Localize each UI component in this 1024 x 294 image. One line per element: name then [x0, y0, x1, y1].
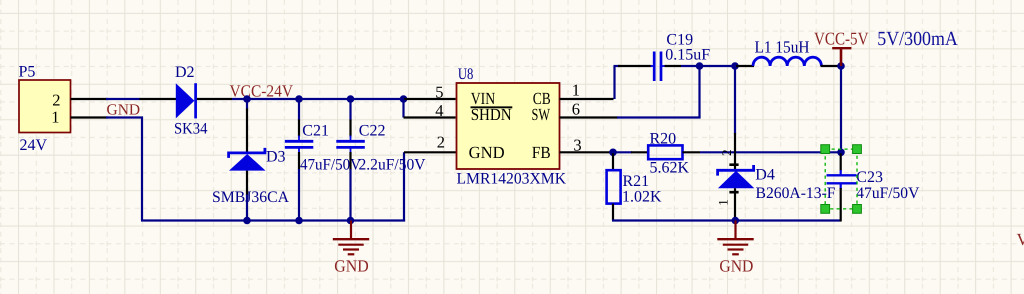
diode D2 value SK34	[174, 120, 208, 137]
selection handle C23 bottom-left	[821, 205, 830, 214]
svg-text:47uF/50V: 47uF/50V	[300, 156, 361, 173]
svg-text:R20: R20	[650, 130, 677, 147]
svg-text:0.15uF: 0.15uF	[665, 46, 710, 63]
diode D3 designator	[266, 149, 286, 166]
diode D4 value B260A-13-F	[756, 185, 836, 202]
wire U8 FB pin stub	[560, 151, 614, 153]
ground label right	[719, 257, 753, 276]
wire P5.2 to D2 anode	[106, 98, 140, 100]
capacitor C21 designator	[302, 123, 329, 140]
op-amp U8 pin name FB	[532, 143, 551, 162]
selection handle C23 bottom-right	[853, 205, 862, 214]
op-amp U8 pin number 2	[437, 133, 445, 152]
wire VIN to SHDN link vertical	[402, 99, 404, 118]
capacitor C23 value	[856, 185, 919, 202]
junction D4 riser at top row	[731, 62, 739, 70]
svg-text:SMBJ36CA: SMBJ36CA	[212, 189, 289, 206]
capacitor C22 designator	[359, 123, 386, 140]
op-amp U8 pin number 5	[435, 82, 443, 101]
wire C21 to ground rail	[298, 169, 300, 221]
wire U8 GND pin stub	[404, 151, 457, 153]
resistor R20 right pin	[683, 151, 701, 153]
annotation 5V/300mA	[877, 28, 958, 50]
diode D3 anode pin	[246, 171, 248, 196]
svg-text:VCC-24V: VCC-24V	[230, 81, 294, 100]
diode D3 cathode pin	[246, 100, 248, 153]
op-amp U8 pin name VIN	[471, 89, 496, 108]
junction D4 GND at ground rail	[732, 217, 740, 225]
capacitor C21 top pin	[298, 100, 300, 141]
svg-text:C23: C23	[856, 169, 883, 186]
op-amp U8 pin number 1	[572, 80, 580, 99]
junction C23 top node	[837, 149, 845, 157]
svg-text:1: 1	[51, 108, 59, 127]
junction C22 GND at ground rail	[347, 217, 355, 225]
wire C19 to SW node	[681, 65, 736, 67]
diode D3 body	[229, 148, 266, 171]
wire D3 anode to ground rail	[246, 195, 248, 221]
resistor R21 value	[622, 188, 662, 205]
connector P5 value 24V	[20, 137, 48, 154]
wire top row to L1	[736, 65, 754, 67]
wire ground rail up to U8 GND pin	[403, 152, 405, 221]
resistor R20 designator	[650, 130, 677, 147]
wire SHDN pin stub	[404, 116, 456, 118]
diode D2 anode pin	[140, 98, 177, 100]
op-amp U8 designator	[458, 66, 474, 83]
capacitor C23 designator	[856, 169, 883, 186]
svg-text:SW: SW	[532, 105, 551, 124]
net label GND	[107, 102, 141, 119]
diode D4 cathode tick	[729, 163, 738, 166]
inductor L1 label	[755, 38, 810, 57]
capacitor C19 designator	[666, 32, 693, 49]
junction FB node	[609, 149, 617, 157]
junction at D3 on VCC-24V rail	[243, 95, 251, 103]
diode D4 body	[718, 165, 755, 188]
connector P5 designator label	[19, 64, 36, 81]
svg-text:GND: GND	[719, 257, 753, 276]
capacitor C22 bottom pin	[350, 147, 352, 170]
diode D4 pin 2 number rotated	[719, 149, 734, 156]
ground symbol right	[717, 221, 753, 255]
op-amp U8 body	[457, 83, 560, 169]
diode D4 pin 1 number rotated	[715, 199, 730, 206]
svg-text:24V: 24V	[20, 137, 48, 154]
capacitor C23 top pin	[840, 153, 842, 175]
junction at VIN branch	[400, 95, 408, 103]
svg-text:B260A-13-F: B260A-13-F	[756, 185, 836, 202]
wire U8 CB pin stub	[560, 98, 614, 100]
capacitor C19 plates	[654, 52, 661, 82]
diode D4 anode pin	[734, 188, 736, 220]
svg-text:SK34: SK34	[174, 120, 208, 137]
inductor L1 right pin	[821, 65, 842, 67]
svg-text:GND: GND	[334, 256, 368, 275]
op-amp U8 value LMR14203XMK	[457, 171, 567, 188]
capacitor C23 bottom pin	[840, 183, 842, 221]
wire C22 to ground rail	[349, 169, 351, 221]
resistor R20 body	[648, 145, 682, 159]
wire P5.1 to corner	[106, 116, 143, 118]
wire D4 riser from top row	[734, 66, 736, 134]
ground symbol left	[333, 221, 369, 255]
op-amp U8 pin number 6	[572, 99, 580, 118]
junction VCC-5V node	[837, 62, 845, 70]
svg-text:2: 2	[719, 149, 734, 156]
selection handle C23 top-right	[853, 145, 862, 154]
svg-text:C22: C22	[359, 123, 386, 140]
capacitor C23 plates	[827, 175, 857, 183]
capacitor C22 plates	[336, 141, 365, 147]
diode D4 anode tick	[729, 191, 738, 194]
resistor R21 bottom pin	[612, 204, 614, 221]
resistor R21 designator	[623, 173, 650, 190]
op-amp U8 pin number 3	[573, 136, 581, 155]
svg-text:D4: D4	[755, 167, 775, 184]
connector P5 pin 2 stub	[71, 98, 108, 100]
op-amp U8 pin name CB	[533, 89, 551, 108]
diode D4 cathode pin	[734, 133, 736, 169]
resistor R20 value	[650, 159, 690, 176]
op-amp U8 pin name SW	[532, 105, 551, 124]
selection box C23	[825, 149, 857, 209]
svg-text:1: 1	[572, 80, 580, 99]
svg-text:D3: D3	[266, 149, 286, 166]
connector P5 pin 1 number	[51, 108, 59, 127]
power port VCC-5V label	[814, 29, 869, 49]
svg-text:R21: R21	[623, 173, 650, 190]
wire SW riser	[698, 66, 700, 118]
junction D3 at ground rail	[243, 217, 251, 225]
selection handle C23 top-left	[821, 145, 830, 154]
svg-text:1: 1	[715, 199, 730, 206]
ground label left	[334, 256, 368, 275]
wire corner down to ground rail	[141, 117, 143, 221]
net label VCC-24V	[230, 81, 294, 100]
net label V partial at right edge	[1017, 230, 1024, 249]
capacitor C21 value	[300, 156, 361, 173]
svg-text:L1 15uH: L1 15uH	[755, 38, 810, 57]
svg-text:5: 5	[435, 82, 443, 101]
connector P5 pin 1 stub	[71, 116, 108, 118]
resistor R21 body	[607, 170, 621, 203]
wire VIN pin stub	[404, 98, 456, 100]
power port VCC-5V symbol	[832, 48, 851, 66]
svg-text:5V/300mA: 5V/300mA	[877, 28, 958, 50]
diode D2 designator	[175, 64, 195, 81]
svg-text:C21: C21	[302, 123, 329, 140]
wire R20 to output rail	[700, 151, 841, 153]
svg-text:5.62K: 5.62K	[650, 159, 690, 176]
svg-text:47uF/50V: 47uF/50V	[856, 185, 919, 202]
junction at C21 on VCC-24V rail	[295, 95, 303, 103]
capacitor C19 right pin	[661, 65, 682, 67]
resistor R20 left pin	[631, 151, 648, 153]
op-amp U8 pin name SHDN with overbar	[471, 105, 513, 124]
diode D2 body	[176, 83, 196, 118]
svg-text:D2: D2	[175, 64, 195, 81]
svg-text:4: 4	[435, 101, 443, 120]
wire CB corner up	[613, 66, 615, 99]
capacitor C21 plates	[285, 141, 314, 147]
junction C21 at ground rail	[295, 217, 303, 225]
inductor L1 body	[753, 57, 821, 66]
wire FB to R20	[613, 151, 632, 153]
wire bottom ground rail left	[141, 219, 405, 221]
svg-text:1.02K: 1.02K	[622, 188, 662, 205]
op-amp U8 pin name GND	[469, 143, 505, 162]
wire U8 SW pin stub	[560, 116, 619, 118]
wire VCC-5V rail down	[840, 66, 842, 152]
op-amp U8 pin number 4	[435, 101, 443, 120]
capacitor C21 bottom pin	[298, 147, 300, 170]
svg-text:U8: U8	[458, 66, 474, 83]
connector P5 pin 2 number	[52, 91, 60, 110]
svg-text:2: 2	[437, 133, 445, 152]
diode D4 designator	[755, 167, 775, 184]
junction SW riser at top row	[696, 62, 704, 70]
wire SW pin to riser	[617, 116, 701, 118]
diode D3 value SMBJ36CA	[212, 189, 289, 206]
wire bottom ground rail right	[612, 219, 841, 221]
svg-text:2.2uF/50V: 2.2uF/50V	[359, 156, 426, 173]
wire VCC-24V rail	[232, 98, 404, 100]
svg-text:LMR14203XMK: LMR14203XMK	[457, 171, 567, 188]
diode D2 cathode pin	[197, 98, 232, 100]
svg-text:GND: GND	[107, 102, 141, 119]
svg-text:GND: GND	[469, 143, 505, 162]
resistor R21 top pin	[612, 153, 614, 170]
svg-text:6: 6	[572, 99, 580, 118]
capacitor C22 top pin	[349, 100, 351, 141]
capacitor C19 left pin	[618, 65, 654, 67]
svg-text:V: V	[1017, 230, 1024, 249]
wire top to C19 left	[614, 65, 621, 67]
svg-text:FB: FB	[532, 143, 551, 162]
capacitor C22 value	[359, 156, 426, 173]
capacitor C19 value	[665, 46, 710, 63]
junction at C22 on VCC-24V rail	[347, 95, 355, 103]
svg-text:VCC-5V: VCC-5V	[814, 29, 869, 49]
connector P5 body	[19, 80, 71, 133]
svg-text:P5: P5	[19, 64, 36, 81]
